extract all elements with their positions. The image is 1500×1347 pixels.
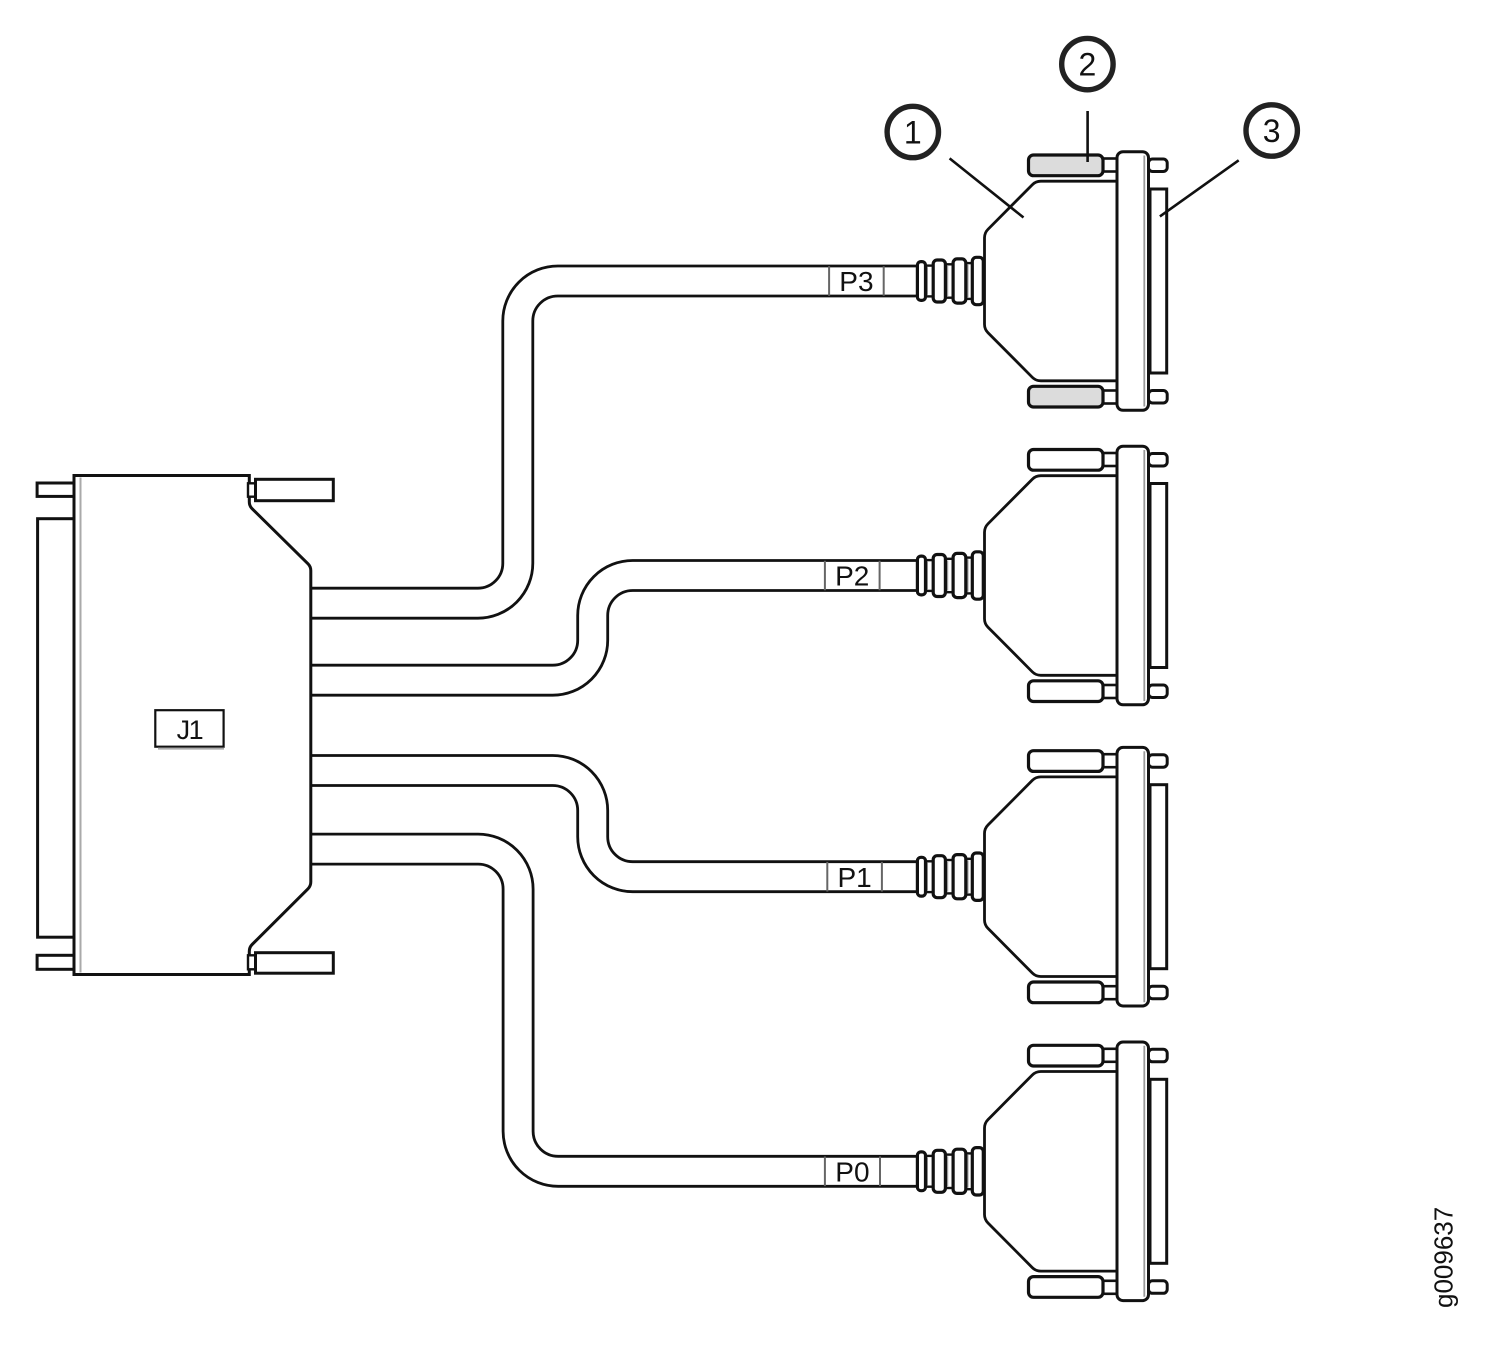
svg-text:g009637: g009637 [1429,1207,1459,1308]
callout 2 leader line [1086,111,1089,162]
connector J1 body [74,476,311,975]
connector P0 [917,1042,1167,1301]
svg-text:1: 1 [904,115,922,151]
connector P2 [917,446,1167,705]
J1 mating face [38,519,74,938]
callout 2 circle [1062,38,1113,89]
callout 3 leader line [1160,160,1239,216]
callout 3 circle [1246,105,1297,156]
svg-text:P1: P1 [837,862,871,893]
callout 1 leader line [950,158,1024,217]
label P0 on cable [825,1156,880,1187]
J1 label box shadow [158,748,224,750]
label P2 on cable [825,561,880,592]
J1 label box [155,710,223,747]
connector P3 [917,152,1167,411]
J1 flange inner edge [80,478,82,973]
svg-text:3: 3 [1263,113,1281,149]
connector P1 [917,747,1167,1006]
cable to P3 [305,281,925,603]
J1 thumbscrew top [256,479,334,500]
J1 thumbscrew shaft top [248,483,256,496]
cable to P1 [305,771,925,877]
J1 thumbscrew bottom [256,953,334,974]
J1 thumbscrew shaft bottom [248,955,256,969]
J1 pin bottom [37,955,74,969]
label P1 on cable [827,862,882,893]
J1 pin top [37,483,74,496]
cable to P0 [305,849,925,1171]
svg-text:P2: P2 [835,561,869,592]
svg-text:2: 2 [1079,47,1097,83]
label P3 on cable [829,266,884,297]
svg-text:P3: P3 [839,266,873,297]
callout 1 circle [887,106,938,157]
svg-text:P0: P0 [835,1156,869,1187]
cable to P2 [305,576,925,681]
svg-text:J1: J1 [177,715,203,745]
